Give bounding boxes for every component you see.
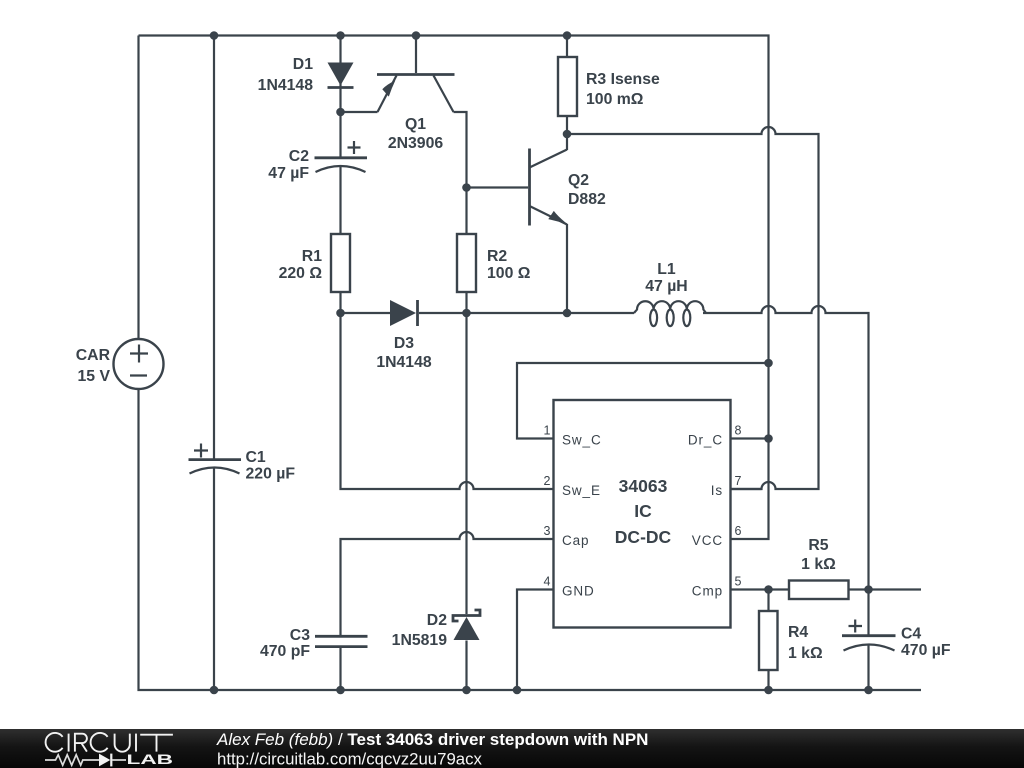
capacitor C2: [268, 141, 367, 182]
svg-text:DC-DC: DC-DC: [615, 527, 672, 547]
pin 1 Sw_C: [544, 424, 602, 448]
wire C4 branch: [867, 590, 869, 691]
pin 7 Is: [711, 474, 742, 498]
svg-text:CAR: CAR: [76, 347, 111, 364]
wire R3 branch: [566, 36, 568, 135]
diode D1: [258, 56, 354, 94]
node R3 bottom junction: [563, 130, 572, 139]
wire Q2 collector stub: [566, 134, 568, 150]
node Cmp R4 junction: [764, 585, 773, 594]
node top rail at D1: [336, 31, 345, 40]
diode D3: [376, 300, 432, 371]
wire Q2 base: [467, 186, 529, 188]
pin 4 GND: [544, 575, 595, 599]
svg-text:Cmp: Cmp: [692, 584, 723, 599]
node top rail at C1: [210, 31, 219, 40]
svg-text:Dr_C: Dr_C: [688, 433, 723, 448]
wire Q1 collector to Q2 base node and R2: [454, 112, 467, 313]
wire Sw_C loop: [517, 363, 769, 439]
wire source to ground rail and bottom rail: [139, 389, 922, 690]
svg-text:2N3906: 2N3906: [388, 135, 444, 152]
inductor L1: [634, 261, 706, 326]
wire Cmp pin 5 to R5: [731, 588, 790, 590]
svg-text:L1: L1: [657, 261, 676, 278]
wire GND pin to bottom rail: [517, 590, 554, 691]
pin 8 Dr_C: [688, 424, 742, 448]
resistor R2: [457, 234, 531, 292]
svg-text:1N4148: 1N4148: [258, 77, 314, 94]
svg-text:http://circuitlab.com/cqcvz2uu: http://circuitlab.com/cqcvz2uu79acx: [217, 750, 483, 768]
svg-text:D1: D1: [293, 56, 313, 73]
svg-text:Q1: Q1: [405, 116, 426, 133]
svg-text:LAB: LAB: [127, 752, 174, 767]
svg-text:IC: IC: [634, 501, 652, 521]
node bottom rail at R4: [764, 686, 773, 695]
svg-text:1: 1: [544, 424, 551, 438]
node R1 bottom junction: [336, 309, 345, 318]
wire D1 branch: [339, 36, 341, 113]
svg-text:34063: 34063: [619, 476, 668, 496]
node Q2 base junction: [462, 183, 471, 192]
svg-text:47 µF: 47 µF: [268, 165, 309, 182]
svg-text:R2: R2: [487, 248, 507, 265]
diode D2 schottky: [392, 610, 480, 649]
svg-text:470 pF: 470 pF: [260, 643, 310, 660]
svg-text:C3: C3: [290, 627, 310, 644]
node bottom rail at GND: [513, 686, 522, 695]
node bottom rail at C1: [210, 686, 219, 695]
svg-text:1N5819: 1N5819: [392, 632, 448, 649]
wire Is pin 7: [731, 488, 762, 490]
svg-text:R1: R1: [302, 248, 322, 265]
transistor Q2 D882: [530, 149, 606, 226]
svg-text:2: 2: [544, 474, 551, 488]
svg-text:Sw_E: Sw_E: [562, 483, 601, 498]
wire Dr_C pin 8: [731, 437, 769, 439]
wire C1 branch upper: [213, 36, 215, 460]
wire switch output row D3 to L1 with hops: [341, 306, 869, 590]
wire C1 branch lower: [213, 469, 215, 691]
capacitor C4: [842, 620, 951, 660]
svg-text:C1: C1: [246, 449, 266, 466]
capacitor C3: [260, 627, 368, 660]
transistor Q1 2N3906: [377, 75, 455, 153]
svg-text:220 µF: 220 µF: [246, 466, 296, 483]
node Q2 emitter junction: [563, 309, 572, 318]
node top rail at Q1 base: [412, 31, 421, 40]
svg-text:R5: R5: [808, 537, 828, 554]
resistor R5: [789, 537, 849, 599]
svg-text:VCC: VCC: [692, 533, 723, 548]
wire Sw_E row with hop: [341, 313, 555, 489]
svg-text:1N4148: 1N4148: [376, 354, 432, 371]
wire R4 branch: [767, 590, 769, 691]
svg-text:5: 5: [735, 575, 742, 589]
svg-text:GND: GND: [562, 584, 595, 599]
pin 3 Cap: [544, 524, 590, 548]
svg-text:D2: D2: [427, 612, 447, 629]
wire R5 to output stub: [849, 588, 922, 590]
node bottom rail at C3: [336, 686, 345, 695]
svg-text:100 Ω: 100 Ω: [487, 265, 531, 282]
node D1 cathode junction: [336, 108, 345, 117]
svg-text:1 kΩ: 1 kΩ: [788, 645, 823, 662]
svg-text:D882: D882: [568, 191, 606, 208]
wire VIN top rail with Dr_C/VCC right vertical: [139, 36, 769, 540]
svg-text:Q2: Q2: [568, 172, 589, 189]
node R2 bottom junction: [462, 309, 471, 318]
pin 2 Sw_E: [544, 474, 601, 498]
svg-text:7: 7: [735, 474, 742, 488]
pin 5 Cmp: [692, 575, 742, 599]
svg-text:C2: C2: [289, 148, 309, 165]
wire Cap row to C3 with hop: [341, 532, 555, 690]
svg-text:Sw_C: Sw_C: [562, 433, 602, 448]
svg-text:Is: Is: [711, 483, 723, 498]
node Sw_C loop to Dr_C vertical: [764, 359, 773, 368]
wire D2 branch: [465, 313, 467, 690]
svg-text:220 Ω: 220 Ω: [279, 265, 323, 282]
wire R3 node to Is vertical with hop: [567, 127, 819, 489]
node R5 C4 junction: [864, 585, 873, 594]
svg-text:4: 4: [544, 575, 551, 589]
wire C2 to R1 branch: [339, 112, 341, 313]
svg-text:15 V: 15 V: [78, 368, 111, 385]
svg-text:3: 3: [544, 524, 551, 538]
node top rail at R3: [563, 31, 572, 40]
wire Q1 emitter horizontal: [341, 111, 378, 113]
wire Q2 emitter stub: [566, 224, 568, 313]
svg-text:Cap: Cap: [562, 533, 589, 548]
svg-text:R3 Isense: R3 Isense: [586, 71, 660, 88]
voltage source V1 CAR: [76, 339, 164, 389]
pin 6 VCC: [692, 524, 742, 548]
svg-text:C4: C4: [901, 626, 921, 643]
wire left rail top to source: [137, 36, 139, 340]
op-amp U1 34063 IC box: [554, 400, 731, 628]
svg-text:470 µF: 470 µF: [901, 642, 951, 659]
resistor R1: [279, 234, 350, 292]
node Dr_C pin 8 junction: [764, 434, 773, 443]
CircuitLab logo: [46, 733, 173, 752]
resistor R4: [759, 611, 823, 670]
svg-text:6: 6: [735, 524, 742, 538]
svg-text:R4: R4: [788, 624, 808, 641]
capacitor C1: [189, 444, 296, 483]
resistor R3: [558, 57, 660, 116]
svg-text:8: 8: [735, 424, 742, 438]
node bottom rail at C4: [864, 686, 873, 695]
svg-text:47 µH: 47 µH: [645, 278, 687, 295]
svg-text:D3: D3: [394, 335, 414, 352]
wire Q1 base: [415, 36, 417, 74]
node bottom rail at D2: [462, 686, 471, 695]
svg-text:Alex Feb (febb) / Test 34063 d: Alex Feb (febb) / Test 34063 driver step…: [216, 730, 648, 749]
svg-text:100 mΩ: 100 mΩ: [586, 91, 644, 108]
svg-text:1 kΩ: 1 kΩ: [801, 556, 836, 573]
